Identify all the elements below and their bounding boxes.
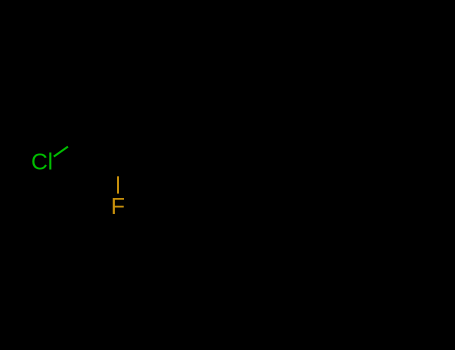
bond C1-C2 (black): [82, 137, 118, 160]
bond Cl-C1 (green half, chlorine side): [54, 147, 68, 157]
svg-text:F: F: [111, 193, 125, 219]
alkyl chain C2..C10 (black bonds, invisible on black background): [118, 137, 406, 160]
bond C2-F (fluorine half, goldenrod): [117, 176, 119, 193]
svg-text:Cl: Cl: [31, 149, 53, 175]
bond Cl-C1 (carbon half, black): [68, 137, 82, 147]
bond C2-F (carbon half, black): [117, 160, 119, 177]
